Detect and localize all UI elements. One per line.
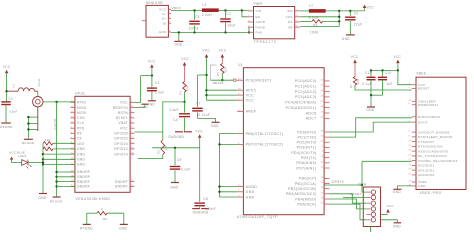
svg-text:PAD: PAD <box>256 31 263 35</box>
svg-text:PC1(ADC1): PC1(ADC1) <box>295 85 317 89</box>
svg-text:GPS1: GPS1 <box>75 92 85 96</box>
svg-text:AGND: AGND <box>246 185 258 189</box>
svg-text:CSN: CSN <box>77 116 85 120</box>
svg-text:0.22uF: 0.22uF <box>198 113 210 117</box>
svg-text:ADC7: ADC7 <box>306 117 317 121</box>
svg-text:10K: 10K <box>223 67 227 73</box>
svg-text:FB: FB <box>288 25 292 29</box>
svg-text:VCC: VCC <box>9 151 16 155</box>
svg-text:PD1(TXD): PD1(TXD) <box>298 135 317 139</box>
svg-text:RFGND: RFGND <box>0 125 13 129</box>
svg-text:AVCC: AVCC <box>246 89 257 93</box>
svg-text:GND: GND <box>246 190 255 194</box>
svg-text:CLK: CLK <box>77 121 85 125</box>
svg-text:AD1/DIO1: AD1/DIO1 <box>418 168 435 172</box>
svg-text:AREF: AREF <box>246 110 257 114</box>
svg-text:R7: R7 <box>349 84 353 88</box>
svg-text:10K: 10K <box>356 79 360 85</box>
svg-text:PD4(XCK/T0): PD4(XCK/T0) <box>291 151 316 155</box>
svg-text:GND: GND <box>77 158 86 162</box>
svg-text:GNDGND: GNDGND <box>193 211 209 215</box>
svg-text:PWR: PWR <box>254 2 263 6</box>
svg-text:GND: GND <box>211 124 219 128</box>
svg-text:22pF: 22pF <box>10 109 18 113</box>
svg-text:GND: GND <box>140 105 148 109</box>
svg-text:PC4(ADC4/SDA): PC4(ADC4/SDA) <box>285 101 316 105</box>
svg-text:PD2(INT0): PD2(INT0) <box>297 141 317 145</box>
svg-text:PWM0/RSSI: PWM0/RSSI <box>418 103 438 107</box>
svg-text:C2: C2 <box>354 12 359 16</box>
svg-text:GND: GND <box>119 226 127 230</box>
svg-text:C4: C4 <box>173 118 178 122</box>
svg-text:GPIO14: GPIO14 <box>114 152 128 156</box>
svg-text:RSTN: RSTN <box>118 111 128 115</box>
svg-text:C7: C7 <box>196 101 201 105</box>
svg-text:GPIO20: GPIO20 <box>114 132 128 136</box>
svg-text:33R: 33R <box>45 138 52 142</box>
svg-text:VIN: VIN <box>256 9 262 13</box>
svg-text:SW: SW <box>287 9 292 13</box>
svg-text:C5: C5 <box>9 96 13 100</box>
svg-text:0.1uF: 0.1uF <box>181 167 191 171</box>
svg-text:GND: GND <box>170 185 178 189</box>
svg-text:PB4(MISO): PB4(MISO) <box>295 197 316 201</box>
svg-text:U1: U1 <box>238 63 243 67</box>
svg-text:10uF: 10uF <box>227 23 235 27</box>
svg-text:PD0(RXD): PD0(RXD) <box>297 130 316 134</box>
svg-text:ID: ID <box>163 21 167 25</box>
svg-text:1uF: 1uF <box>386 82 392 86</box>
svg-text:C3: C3 <box>155 81 160 85</box>
svg-text:VCC: VCC <box>394 55 402 59</box>
svg-text:AD0/DIO0: AD0/DIO0 <box>418 173 435 177</box>
svg-text:GND: GND <box>175 43 183 47</box>
svg-text:VCC: VCC <box>202 49 210 53</box>
svg-text:GND: GND <box>393 190 401 194</box>
svg-text:RFGND: RFGND <box>50 200 63 204</box>
svg-text:RF_TX/AD4/DIO4: RF_TX/AD4/DIO4 <box>418 154 447 158</box>
svg-text:R3: R3 <box>157 150 161 154</box>
svg-text:MINIUSB: MINIUSB <box>146 1 163 5</box>
svg-text:PB5(SCK): PB5(SCK) <box>298 202 317 206</box>
svg-text:PC3(ADC3): PC3(ADC3) <box>295 95 317 99</box>
svg-text:GNDRF: GNDRF <box>115 185 128 189</box>
svg-text:RESET: RESET <box>213 81 225 85</box>
svg-text:100nF: 100nF <box>189 27 200 31</box>
svg-text:L3: L3 <box>202 3 206 7</box>
svg-text:LED: LED <box>77 142 85 146</box>
svg-text:BTSEL: BTSEL <box>116 116 128 120</box>
svg-text:GND: GND <box>77 147 86 151</box>
svg-text:2.2uH: 2.2uH <box>202 13 212 17</box>
svg-text:VCC: VCC <box>246 99 255 103</box>
svg-text:R6: R6 <box>103 217 107 221</box>
svg-text:COORD_SEL/AD3/DIO3: COORD_SEL/AD3/DIO3 <box>418 159 457 163</box>
svg-text:GNDRF: GNDRF <box>77 170 90 174</box>
svg-text:GND: GND <box>418 184 426 188</box>
svg-text:GPIO22: GPIO22 <box>114 137 128 141</box>
svg-text:1.0uF: 1.0uF <box>169 108 179 112</box>
svg-text:L1: L1 <box>309 4 313 8</box>
svg-text:VCC: VCC <box>367 5 375 9</box>
svg-text:CTS/DIO7: CTS/DIO7 <box>418 140 435 144</box>
svg-text:GNDRF: GNDRF <box>115 180 128 184</box>
svg-text:R2: R2 <box>178 90 182 94</box>
svg-text:VCC: VCC <box>246 93 255 97</box>
svg-text:PB6(XTAL1/TOSC1): PB6(XTAL1/TOSC1) <box>246 132 284 136</box>
svg-text:MOSI: MOSI <box>77 111 87 115</box>
svg-text:1.0uF: 1.0uF <box>155 91 165 95</box>
svg-text:C8: C8 <box>203 197 208 201</box>
svg-text:VCC: VCC <box>351 55 359 59</box>
svg-text:TPS62172: TPS62172 <box>254 40 277 44</box>
svg-text:GND: GND <box>77 163 86 167</box>
svg-text:100nF: 100nF <box>205 207 216 211</box>
svg-text:ADC6: ADC6 <box>306 111 317 115</box>
svg-text:R1: R1 <box>313 23 317 27</box>
svg-text:RFGND: RFGND <box>80 226 93 230</box>
svg-text:RTS/AD6/DIO6: RTS/AD6/DIO6 <box>418 145 443 149</box>
svg-text:C10: C10 <box>385 71 392 75</box>
svg-text:PD7(AIN1): PD7(AIN1) <box>296 166 316 170</box>
svg-text:C6: C6 <box>195 15 200 19</box>
svg-text:R5: R5 <box>216 72 220 76</box>
svg-text:10K: 10K <box>186 85 190 91</box>
svg-text:2.2uH: 2.2uH <box>309 16 319 20</box>
svg-text:PB1(OC1A): PB1(OC1A) <box>295 182 317 186</box>
svg-text:GND: GND <box>342 37 350 41</box>
svg-text:TX: TX <box>77 137 82 141</box>
svg-text:VOS: VOS <box>285 15 292 19</box>
svg-text:0: 0 <box>101 207 103 211</box>
svg-text:L2: L2 <box>12 84 16 88</box>
svg-text:GPSTX: GPSTX <box>332 180 345 184</box>
svg-text:MISO: MISO <box>77 106 87 110</box>
svg-text:VBUS: VBUS <box>172 6 181 10</box>
svg-text:PB7(XTAL2/TOSC2): PB7(XTAL2/TOSC2) <box>246 143 284 147</box>
svg-text:PPS: PPS <box>77 126 85 130</box>
svg-text:VENUS638LHSMD: VENUS638LHSMD <box>76 197 111 201</box>
svg-text:PC2(ADC2): PC2(ADC2) <box>295 90 317 94</box>
svg-text:ASSOC/AD5/DIO5: ASSOC/AD5/DIO5 <box>418 149 448 153</box>
svg-text:RESET: RESET <box>418 87 430 91</box>
svg-text:PB3(MOSI/OC2): PB3(MOSI/OC2) <box>286 192 317 196</box>
svg-text:VCC: VCC <box>181 57 189 61</box>
svg-text:EN: EN <box>256 15 261 19</box>
svg-text:PGND: PGND <box>256 25 266 29</box>
svg-text:PB2(SS/OC1B): PB2(SS/OC1B) <box>288 187 316 191</box>
svg-text:GND: GND <box>159 30 167 34</box>
svg-text:DIN//CONFIG: DIN//CONFIG <box>418 115 441 119</box>
svg-text:PG: PG <box>288 20 293 24</box>
svg-text:C11: C11 <box>365 71 372 75</box>
svg-text:RESETN: RESETN <box>113 106 128 110</box>
svg-text:GND: GND <box>39 196 47 200</box>
svg-text:GND: GND <box>393 224 401 228</box>
svg-text:C1: C1 <box>227 12 232 16</box>
svg-text:GNDRF: GNDRF <box>77 175 90 179</box>
svg-text:VCC: VCC <box>219 49 227 53</box>
svg-text:GND: GND <box>77 152 86 156</box>
svg-text:GPIO24: GPIO24 <box>114 142 128 146</box>
svg-text:PC5(ADC5/SCL): PC5(ADC5/SCL) <box>286 106 317 110</box>
svg-text:ATMEGA328P_TQFP: ATMEGA328P_TQFP <box>237 215 278 219</box>
svg-text:PC0(ADC0): PC0(ADC0) <box>295 79 317 83</box>
svg-text:AGND: AGND <box>256 20 266 24</box>
svg-text:0.1uF: 0.1uF <box>362 82 372 86</box>
svg-text:VCC: VCC <box>3 65 11 69</box>
svg-text:C9: C9 <box>177 158 182 162</box>
svg-text:VCC: VCC <box>195 129 203 133</box>
svg-text:LED3: LED3 <box>18 154 26 158</box>
svg-text:22uF: 22uF <box>354 22 362 26</box>
svg-text:100K: 100K <box>310 30 319 34</box>
svg-text:RTC: RTC <box>120 126 128 130</box>
svg-text:VCC: VCC <box>159 8 167 12</box>
svg-text:GNDRF: GNDRF <box>77 180 90 184</box>
svg-text:4.4: 4.4 <box>44 146 49 150</box>
svg-text:33nH: 33nH <box>37 79 41 87</box>
svg-text:PD6(AIN0): PD6(AIN0) <box>296 161 316 165</box>
svg-text:RFIN: RFIN <box>77 101 86 105</box>
svg-text:VCC: VCC <box>387 204 395 208</box>
svg-text:GPIO12: GPIO12 <box>114 147 128 151</box>
svg-text:GNDGND: GNDGND <box>168 135 184 139</box>
svg-text:VCC: VCC <box>148 60 156 64</box>
svg-text:XBEE-PRO: XBEE-PRO <box>420 191 442 195</box>
svg-text:D-: D- <box>163 12 167 16</box>
svg-text:GND: GND <box>246 195 255 199</box>
svg-text:RX: RX <box>77 132 83 136</box>
svg-text:RFGND: RFGND <box>22 141 35 145</box>
svg-text:AD2/DIO2: AD2/DIO2 <box>418 164 435 168</box>
svg-text:DTR/SLEEP_RQ/DI8: DTR/SLEEP_RQ/DI8 <box>418 135 452 139</box>
svg-text:PB0(ICP): PB0(ICP) <box>299 177 317 181</box>
svg-text:D+: D+ <box>162 17 167 21</box>
svg-text:DOUT: DOUT <box>418 120 428 124</box>
svg-text:GND: GND <box>366 108 374 112</box>
svg-text:PD5(T1): PD5(T1) <box>301 156 317 160</box>
svg-text:CD/DOUT_EN/DO8: CD/DOUT_EN/DO8 <box>418 130 450 134</box>
svg-text:GNDRF: GNDRF <box>77 185 90 189</box>
svg-text:PD3(INT1): PD3(INT1) <box>297 146 317 150</box>
svg-text:VBAT: VBAT <box>118 121 128 125</box>
svg-text:VCC: VCC <box>120 101 128 105</box>
svg-text:XBEE: XBEE <box>416 72 427 76</box>
svg-text:PC6(/RESET): PC6(/RESET) <box>246 79 272 83</box>
